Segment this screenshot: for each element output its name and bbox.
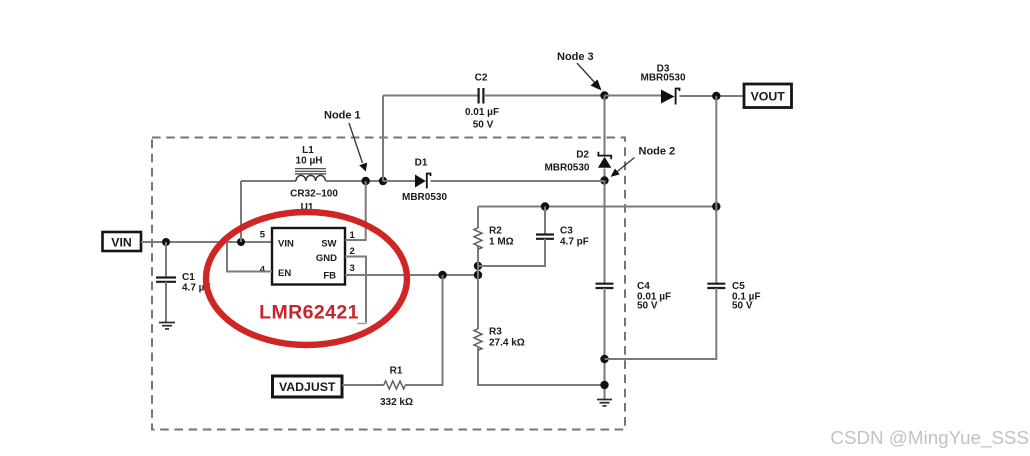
capacitor C3	[536, 235, 554, 239]
svg-text:2: 2	[350, 246, 355, 257]
svg-text:D1: D1	[415, 158, 428, 169]
svg-text:C5: C5	[732, 281, 745, 292]
svg-text:D2: D2	[576, 150, 589, 161]
wire C5 bottom return	[605, 288, 717, 359]
svg-text:MBR0530: MBR0530	[640, 73, 685, 84]
wire L1 right to node 1	[326, 180, 416, 182]
wire C1 top lead	[165, 242, 167, 277]
svg-text:27.4 kΩ: 27.4 kΩ	[489, 338, 525, 349]
svg-text:VOUT: VOUT	[751, 90, 786, 104]
svg-text:10 µH: 10 µH	[296, 156, 323, 167]
dashed application-circuit enclosure	[152, 138, 625, 430]
svg-text:SW: SW	[321, 239, 336, 250]
svg-text:LMR62421: LMR62421	[259, 302, 359, 324]
wire C2 to node 3	[484, 95, 605, 97]
svg-text:4: 4	[260, 265, 266, 276]
GND stub tick	[358, 323, 367, 325]
svg-text:CR32–100: CR32–100	[290, 189, 338, 200]
svg-text:CSDN @MingYue_SSS: CSDN @MingYue_SSS	[830, 427, 1029, 449]
label Node 2 with arrow	[611, 146, 676, 177]
diode D2 MBR0530 (vertical, pointing up)	[598, 152, 611, 168]
svg-text:50 V: 50 V	[732, 301, 753, 312]
wire node1 to D1	[383, 180, 415, 182]
resistor R1	[384, 381, 406, 389]
svg-text:VADJUST: VADJUST	[279, 380, 336, 394]
wire L1 left lead	[241, 180, 296, 182]
ground (main)	[597, 400, 612, 406]
junction dot (VOUT / C5 branch)	[712, 92, 720, 100]
junction dot (R3 return)	[600, 381, 608, 389]
junction dot (FB / R1)	[438, 271, 446, 279]
wire C1 bottom lead	[165, 282, 167, 322]
svg-text:4.7 pF: 4.7 pF	[560, 237, 589, 248]
svg-text:R3: R3	[489, 327, 502, 338]
svg-text:C3: C3	[560, 226, 573, 237]
diode D1 MBR0530	[415, 174, 431, 189]
wire junction R2-R3	[477, 266, 479, 275]
capacitor C1	[156, 278, 176, 282]
port VOUT	[744, 84, 792, 108]
wire C2 branch vertical	[382, 96, 384, 182]
junction dot (R2 / C3 bottom)	[474, 262, 482, 270]
svg-text:1 MΩ: 1 MΩ	[489, 237, 514, 248]
svg-text:C4: C4	[637, 281, 650, 292]
wire EN pin to VIN rail	[227, 243, 272, 272]
svg-text:GND: GND	[316, 253, 337, 264]
wire node 3 down to D2	[604, 96, 606, 157]
wire D1 to node 2 line	[431, 180, 605, 182]
wire R3 bottom to ground rail	[478, 346, 605, 385]
junction dot (mid rail / C5 line)	[712, 202, 720, 210]
wire GND pin down	[345, 257, 366, 323]
svg-text:MBR0530: MBR0530	[402, 192, 447, 203]
svg-text:FB: FB	[323, 271, 336, 282]
wire VADJUST to R1	[342, 384, 384, 386]
wire mid rail (R2/C3 top to C5 line)	[478, 206, 716, 208]
wire top left to C2	[383, 95, 478, 97]
wire node 3 to D3	[605, 95, 662, 97]
wire R2 bottom	[477, 245, 479, 266]
op IC U1 LMR62421 box	[272, 228, 345, 285]
svg-text:VIN: VIN	[111, 236, 132, 250]
port VIN	[103, 232, 142, 251]
svg-text:C1: C1	[182, 272, 195, 283]
svg-text:L1: L1	[302, 145, 314, 156]
wire D3 to VOUT	[680, 95, 745, 97]
svg-text:C2: C2	[475, 73, 488, 84]
svg-text:MBR0530: MBR0530	[544, 163, 589, 174]
svg-text:EN: EN	[278, 268, 291, 279]
svg-text:Node 2: Node 2	[639, 146, 676, 158]
label Node 3 with arrow	[557, 51, 602, 91]
wire R1 to FB junction	[405, 275, 442, 385]
wire C5 branch vertical	[715, 96, 717, 283]
node junction dot (VIN wire / L1 branch)	[237, 238, 245, 246]
node 1 junction dot (SW branch)	[362, 177, 370, 185]
ground (below C1)	[159, 323, 175, 329]
svg-text:50 V: 50 V	[473, 120, 494, 131]
junction dot (C3 top)	[541, 202, 549, 210]
port VADJUST	[273, 376, 343, 397]
svg-text:0.01 µF: 0.01 µF	[465, 107, 499, 118]
svg-text:Node 1: Node 1	[324, 110, 361, 122]
junction dot (C5 return)	[600, 355, 608, 363]
wire C4 bottom	[604, 288, 606, 399]
node 2 junction dot	[600, 176, 608, 184]
wire C3 bottom lead	[478, 239, 545, 266]
wire R2 top from mid rail	[477, 207, 479, 229]
svg-text:Node 3: Node 3	[557, 51, 594, 63]
capacitor C5	[707, 284, 725, 288]
value label C1 4.7 uF	[182, 272, 211, 294]
junction dot (FB / R3)	[474, 271, 482, 279]
wire C3 top lead	[544, 207, 546, 235]
resistor R2	[474, 228, 482, 250]
inductor L1	[295, 169, 326, 181]
svg-text:R2: R2	[489, 226, 502, 237]
svg-text:50 V: 50 V	[637, 301, 658, 312]
wire SW pin up to node 1	[345, 181, 366, 240]
wire node 2 down through C4	[604, 181, 606, 284]
capacitor C2	[479, 88, 484, 104]
svg-text:5: 5	[260, 230, 266, 241]
wire L1 branch vertical	[240, 181, 242, 242]
svg-text:R1: R1	[390, 366, 403, 377]
label Node 1 with arrow	[324, 110, 367, 172]
wire D2 to node 2	[604, 169, 606, 181]
svg-text:332 kΩ: 332 kΩ	[380, 397, 413, 408]
capacitor C4	[596, 284, 614, 288]
svg-text:VIN: VIN	[278, 239, 294, 250]
svg-text:3: 3	[350, 263, 355, 274]
wire VIN to IC pin 5	[141, 241, 272, 243]
node 1 junction dot (C2 branch)	[379, 177, 387, 185]
red highlight ellipse	[206, 212, 407, 345]
wire FB pin to divider	[345, 274, 478, 276]
node 3 junction dot	[600, 91, 608, 99]
diode D3 MBR0530	[661, 89, 680, 105]
resistor R3	[477, 275, 479, 329]
node junction dot (VIN / C1)	[162, 238, 170, 246]
